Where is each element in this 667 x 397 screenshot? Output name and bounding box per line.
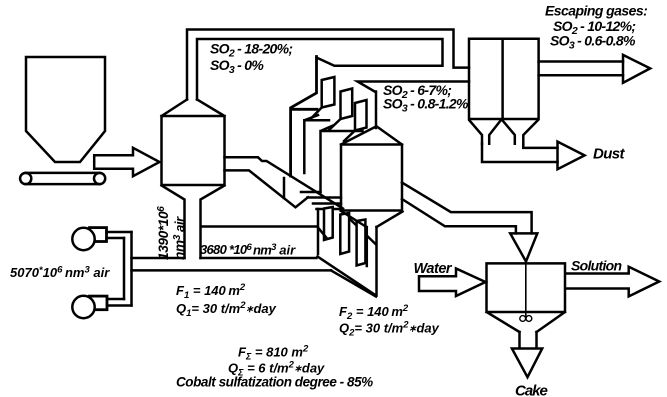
- svg-text:Water: Water: [414, 261, 453, 277]
- air duct from pumps: top line: [132, 257, 317, 260]
- tank bottom neck: [520, 332, 537, 347]
- dust arrow: [558, 142, 585, 170]
- upper slat 1: [322, 77, 335, 108]
- diagonal duct upper (D1): [318, 257, 377, 296]
- heat-exchanger casing corner 1: [291, 57, 317, 177]
- svg-text:Q1= 30 t/m2∗day: Q1= 30 t/m2∗day: [176, 300, 277, 319]
- svg-text:Q2= 30 t/m2∗day: Q2= 30 t/m2∗day: [339, 320, 440, 339]
- bar bank roof diagonal: [340, 210, 376, 245]
- vessel V2 body: [341, 127, 402, 211]
- dust piping: [482, 144, 558, 162]
- conveyor belt: [20, 173, 105, 184]
- feed arrow into vessel 1: [94, 148, 159, 176]
- svg-text:Cake: Cake: [515, 383, 548, 397]
- svg-text:SO3 - 0.8-1.2%: SO3 - 0.8-1.2%: [383, 95, 469, 114]
- agitator impeller: [520, 316, 526, 322]
- svg-text:F1 = 140 m2: F1 = 140 m2: [176, 282, 246, 301]
- svg-text:Cobalt sulfatization degree -: Cobalt sulfatization degree - 85%: [176, 375, 373, 390]
- escaping gases arrow: [623, 55, 650, 83]
- heat-exchanger casing corner 3: [321, 126, 363, 193]
- svg-text:3680 *106 nm3 air: 3680 *106 nm3 air: [200, 242, 296, 258]
- duct bottom wall to ESP (SO2 6-7% duct): [358, 82, 470, 93]
- vessel V2 funnel neck channel: [367, 227, 377, 296]
- feed triangle into tank: [510, 233, 537, 261]
- cake arrow: [512, 349, 542, 378]
- svg-text:Escaping gases:: Escaping gases:: [545, 3, 647, 19]
- upper slat 2: [341, 89, 353, 120]
- water arrow: [419, 269, 486, 297]
- escaping gases duct: [539, 62, 623, 76]
- lower tube bar 1: [324, 207, 333, 240]
- vessel V1 top pipe and duct to ESP (outer wall): [187, 30, 469, 100]
- svg-text:1390*106: 1390*106: [156, 206, 171, 260]
- vessel V2 right outlet duct to tank: [402, 183, 532, 234]
- vessel V1 funnel and neck: [162, 186, 225, 259]
- vessel V2 funnel: [341, 211, 403, 227]
- 3680 duct label box: [202, 227, 328, 239]
- svg-text:F2 = 140 m2: F2 = 140 m2: [339, 303, 409, 322]
- heat-exchanger casing corner 2: [304, 115, 329, 173]
- upper slat 3: [355, 100, 367, 131]
- svg-text:Solution: Solution: [571, 258, 622, 274]
- ESP funnels: [470, 121, 538, 144]
- vessel V2 (contact apparatus) top pipe: [375, 92, 378, 129]
- solution arrow: [566, 267, 659, 297]
- pump P2: [72, 296, 131, 318]
- svg-text:FΣ = 810 m2: FΣ = 810 m2: [238, 344, 309, 362]
- svg-text:5070*106 nm3 air: 5070*106 nm3 air: [10, 265, 110, 281]
- vessel V1 top duct inner wall: [197, 39, 443, 100]
- vessel V1 right outlet lower line: [225, 170, 309, 207]
- ESP (electrostatic precipitator) body: [469, 39, 539, 119]
- tank agitator shaft: [525, 263, 527, 317]
- svg-text:SO3 - 0.6-0.8%: SO3 - 0.6-0.8%: [550, 33, 636, 52]
- lower tube bar 2: [340, 213, 349, 254]
- lower tube bar 3: [357, 220, 366, 266]
- svg-text:Dust: Dust: [593, 146, 626, 163]
- back vessel wall below band: [283, 178, 286, 198]
- pump vertical pipe: [124, 232, 132, 306]
- leaching tank: [487, 263, 566, 332]
- pump P1: [72, 228, 131, 251]
- bar bank left frame: [317, 209, 320, 254]
- air duct from pumps: bottom line: [132, 269, 332, 272]
- diagonal duct lower (D2): [331, 270, 376, 296]
- vessel V1 right outlet upper line: [225, 157, 344, 208]
- casing shelf steps: [301, 192, 341, 209]
- silo (ore bunker): [26, 57, 105, 162]
- svg-text:SO3 - 0%: SO3 - 0%: [210, 57, 264, 76]
- vessel V1 (fluidized-bed roaster) body: [162, 100, 225, 186]
